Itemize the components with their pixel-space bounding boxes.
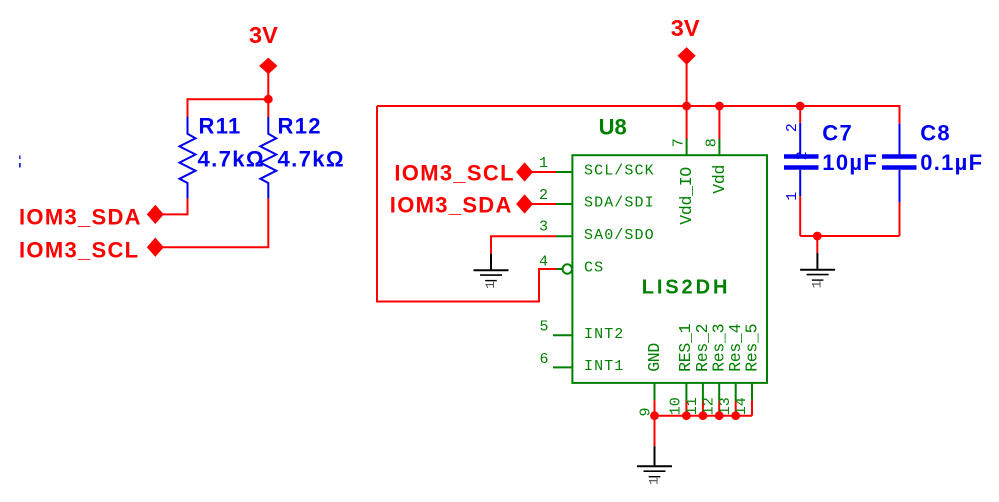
svg-text:SDA/SDI: SDA/SDI xyxy=(584,195,655,212)
svg-text:4.7kΩ: 4.7kΩ xyxy=(278,147,346,172)
junction dot 3V/pin7 xyxy=(682,102,691,111)
svg-text:8: 8 xyxy=(703,138,720,147)
junction dot C7 xyxy=(796,102,805,111)
svg-text:5: 5 xyxy=(539,318,548,335)
svg-text:Vdd_IO: Vdd_IO xyxy=(677,167,696,225)
net flag diamond IOM3_SCL (left) xyxy=(148,238,164,256)
svg-text:Res_5: Res_5 xyxy=(742,324,761,372)
pin 13 stub (Res_4) xyxy=(735,383,737,416)
svg-text:2: 2 xyxy=(539,187,548,204)
svg-text:6: 6 xyxy=(539,351,548,368)
svg-text:3V: 3V xyxy=(671,15,700,41)
wire R11 bottom to IOM3_SDA flag xyxy=(162,199,188,215)
svg-text:R12: R12 xyxy=(278,113,322,138)
pin 1 stub xyxy=(556,171,573,173)
svg-text:R11: R11 xyxy=(199,113,242,138)
wire pin 3 to ground xyxy=(491,236,556,254)
pin 7 stub xyxy=(686,139,688,155)
junction dot at 3V node (left) xyxy=(264,95,273,104)
pin 10 stub (RES_1) xyxy=(685,383,687,416)
pin 14 stub (Res_5) xyxy=(751,383,753,416)
pin 3 stub xyxy=(556,235,573,237)
clipped blue mark at left edge xyxy=(19,156,21,168)
net flag diamond IOM3_SDA (left) xyxy=(148,206,164,224)
wire R12 bottom to IOM3_SCL flag xyxy=(162,199,268,248)
svg-text:0.1µF: 0.1µF xyxy=(920,150,983,175)
svg-text:GND: GND xyxy=(645,343,664,372)
svg-text:3: 3 xyxy=(539,219,548,236)
svg-text:U8: U8 xyxy=(599,114,627,139)
wire top rail xyxy=(377,106,900,124)
svg-text:C8: C8 xyxy=(920,120,951,145)
pin 6 stub xyxy=(553,366,573,368)
ground (pin 3) xyxy=(474,254,509,289)
svg-text:CS: CS xyxy=(584,260,604,277)
junction dot pin10 xyxy=(682,411,691,420)
wire rail to pin 8 xyxy=(718,106,720,140)
ground (C7/C8) xyxy=(800,253,835,289)
wire IOM3_SDA to pin 2 xyxy=(531,203,556,205)
svg-text:1: 1 xyxy=(539,155,548,172)
wire IOM3_SCL to pin 1 xyxy=(531,171,556,173)
wire pin9 node down xyxy=(654,416,656,447)
net flag diamond IOM3_SCL (at U8) xyxy=(517,163,533,181)
svg-text:IOM3_SDA: IOM3_SDA xyxy=(390,193,513,218)
svg-text:INT2: INT2 xyxy=(584,326,624,343)
wire GND rail under U8 xyxy=(655,415,753,417)
junction dot pin9 xyxy=(650,411,659,420)
resistor R11 xyxy=(180,98,196,198)
svg-text:1: 1 xyxy=(784,192,801,201)
net flag diamond IOM3_SDA (at U8) xyxy=(517,195,533,213)
svg-text:Vdd: Vdd xyxy=(710,165,729,194)
supply 3V (left) diamond symbol xyxy=(260,58,277,73)
pin 2 stub xyxy=(556,203,573,205)
pin 11 stub (Res_2) xyxy=(702,383,704,416)
svg-text:INT1: INT1 xyxy=(584,358,624,375)
wire horizontal to R11 top xyxy=(188,98,269,100)
op-amp U8 body xyxy=(572,155,767,383)
svg-text:10: 10 xyxy=(668,397,685,415)
svg-text:IOM3_SCL: IOM3_SCL xyxy=(19,237,139,262)
junction dot cap ground xyxy=(813,232,822,241)
svg-text:C7: C7 xyxy=(822,120,853,145)
wire 3V stub down (left) xyxy=(267,73,269,99)
resistor R12 xyxy=(260,99,276,198)
pin 8 stub xyxy=(718,139,720,155)
pin 9 stub (GND) xyxy=(654,383,656,416)
junction dot pin8 xyxy=(715,102,724,111)
capacitor C7 xyxy=(784,106,819,236)
wire 3V down to pin 7 xyxy=(686,64,688,141)
svg-text:10µF: 10µF xyxy=(822,150,878,175)
wire bottom rail C7/C8 xyxy=(800,235,899,237)
svg-text:7: 7 xyxy=(671,138,688,147)
svg-text:4.7kΩ: 4.7kΩ xyxy=(198,147,266,172)
wire left loop to CS xyxy=(377,106,557,302)
svg-text:SCL/SCK: SCL/SCK xyxy=(584,163,655,180)
junction dot pin13 xyxy=(731,411,740,420)
capacitor C8 xyxy=(882,124,917,236)
svg-text:4: 4 xyxy=(539,253,548,270)
pin 5 stub xyxy=(553,334,573,336)
junction dot pin11 xyxy=(699,411,708,420)
svg-text:IOM3_SCL: IOM3_SCL xyxy=(394,161,514,186)
svg-text:2: 2 xyxy=(784,124,801,132)
junction dot pin12 xyxy=(715,411,724,420)
pin 4 stub with inverter bubble (CS) xyxy=(556,264,572,273)
wire cap ground stub xyxy=(816,236,818,253)
ground (pin 9) xyxy=(637,446,672,485)
svg-text:SA0/SDO: SA0/SDO xyxy=(584,227,655,244)
pin 12 stub (Res_3) xyxy=(718,383,720,416)
svg-text:3V: 3V xyxy=(249,22,278,48)
supply 3V (right) diamond symbol xyxy=(678,48,695,64)
svg-text:IOM3_SDA: IOM3_SDA xyxy=(19,205,142,230)
